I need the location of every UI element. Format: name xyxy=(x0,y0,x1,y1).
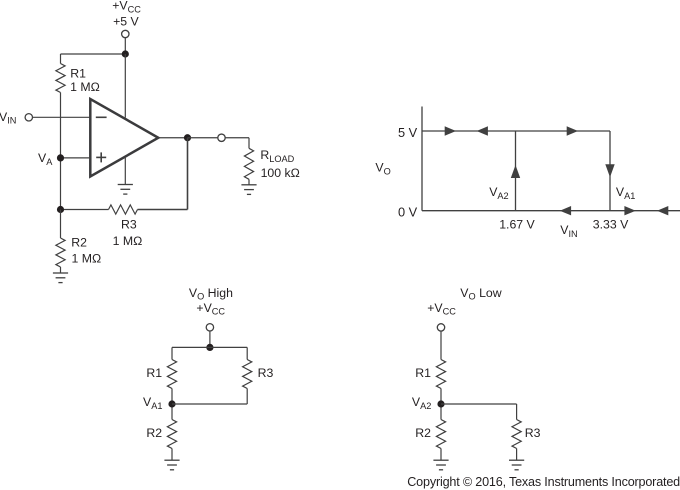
svg-text:R3: R3 xyxy=(121,217,137,231)
svg-text:1 MΩ: 1 MΩ xyxy=(72,251,102,265)
svg-text:0 V: 0 V xyxy=(398,205,418,220)
svg-text:R2: R2 xyxy=(71,236,87,250)
svg-text:VO Low: VO Low xyxy=(460,286,501,302)
svg-text:+VCC: +VCC xyxy=(112,0,141,14)
svg-text:+VCC: +VCC xyxy=(427,301,456,317)
svg-text:VIN: VIN xyxy=(0,110,16,126)
svg-text:VA2: VA2 xyxy=(489,185,508,201)
svg-text:VA2: VA2 xyxy=(412,395,431,411)
svg-text:1 MΩ: 1 MΩ xyxy=(113,234,143,248)
svg-text:5 V: 5 V xyxy=(398,125,418,140)
svg-text:VO High: VO High xyxy=(189,286,233,302)
svg-text:Copyright © 2016, Texas Instru: Copyright © 2016, Texas Instruments Inco… xyxy=(407,475,680,489)
svg-text:R2: R2 xyxy=(415,426,431,440)
svg-text:VA: VA xyxy=(38,151,53,167)
svg-text:R1: R1 xyxy=(415,366,431,380)
svg-text:3.33 V: 3.33 V xyxy=(593,218,629,232)
svg-text:RLOAD: RLOAD xyxy=(260,148,294,164)
svg-text:R1: R1 xyxy=(70,67,86,81)
svg-text:R3: R3 xyxy=(258,366,274,380)
svg-text:+VCC: +VCC xyxy=(196,301,225,317)
svg-text:100 kΩ: 100 kΩ xyxy=(261,166,300,180)
svg-text:VIN: VIN xyxy=(560,223,577,239)
svg-text:VO: VO xyxy=(375,161,390,177)
svg-text:R2: R2 xyxy=(146,426,162,440)
svg-text:R1: R1 xyxy=(146,366,162,380)
svg-text:VA1: VA1 xyxy=(143,395,162,411)
svg-text:VA1: VA1 xyxy=(616,185,635,201)
svg-text:1.67 V: 1.67 V xyxy=(499,218,535,232)
svg-text:1 MΩ: 1 MΩ xyxy=(70,80,100,94)
svg-text:R3: R3 xyxy=(525,426,541,440)
svg-text:+5 V: +5 V xyxy=(113,15,139,29)
